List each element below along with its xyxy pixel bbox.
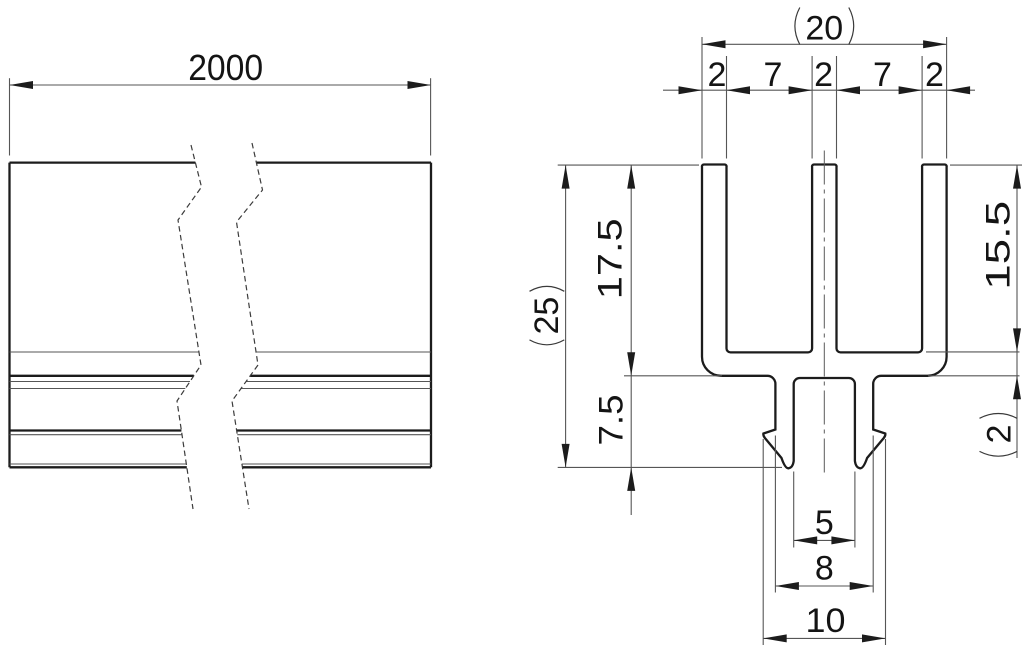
wire horiz y=388.5 left segment	[10, 388, 186, 390]
wire horiz y=381.5 left segment	[10, 381, 191, 383]
dimension (25) left	[528, 165, 782, 467]
svg-text:20: 20	[805, 10, 843, 48]
svg-text:2: 2	[981, 425, 1019, 444]
wire horiz y=381.5 right segment	[246, 381, 431, 383]
wire horiz y=434.7 left segment	[10, 434, 183, 436]
dimension 15.5 right	[926, 165, 1022, 376]
wire horiz y=430.5 left segment	[10, 429, 182, 431]
svg-text:25: 25	[528, 297, 566, 335]
wire horiz y=375.8 right segment	[250, 375, 431, 377]
top extension lines	[702, 37, 947, 159]
svg-text:2: 2	[814, 56, 833, 94]
svg-text:7: 7	[764, 56, 783, 94]
wire horiz y=464.0 left segment	[10, 463, 187, 465]
dimensions 2 7 2 7 2	[663, 56, 975, 94]
svg-text:7: 7	[873, 56, 892, 94]
dimension (2) right	[980, 352, 1022, 458]
dimension 2000	[10, 47, 432, 156]
wire horiz y=352.0 left segment	[10, 351, 199, 353]
dimension 17.5	[592, 165, 722, 376]
dimension 7.5	[593, 376, 636, 515]
wire horiz y=464.0 right segment	[242, 463, 431, 465]
wire horiz y=467.3 left segment	[10, 466, 187, 468]
svg-text:8: 8	[815, 550, 834, 588]
dimension (20)	[702, 8, 947, 49]
svg-text:10: 10	[806, 602, 846, 640]
svg-text:2: 2	[925, 56, 944, 94]
wire horiz y=162.6 right segment	[256, 161, 431, 163]
dimension 8	[775, 436, 873, 593]
wire left edge	[8, 163, 10, 468]
wire horiz y=162.6 left segment	[10, 161, 196, 163]
svg-text:17.5: 17.5	[592, 218, 630, 299]
wire horiz y=430.5 right segment	[237, 429, 431, 431]
wire right edge	[430, 163, 432, 468]
wire horiz y=388.5 right segment	[241, 388, 431, 390]
wire horiz y=467.3 right segment	[242, 466, 431, 468]
wire horiz y=352.0 right segment	[256, 351, 431, 353]
left view: broken side view of 2000mm profile	[10, 143, 432, 509]
dimension 10	[763, 439, 885, 645]
wire horiz y=375.8 left segment	[10, 375, 194, 377]
profile cross-section outline	[702, 164, 947, 468]
svg-text:5: 5	[815, 504, 834, 542]
svg-text:2: 2	[708, 56, 727, 94]
wire horiz y=434.7 right segment	[237, 434, 431, 436]
svg-text:15.5: 15.5	[980, 201, 1018, 290]
centerline of section	[823, 151, 825, 475]
break line right zigzag	[232, 143, 263, 509]
dimension 5	[794, 472, 855, 548]
svg-text:2000: 2000	[188, 47, 263, 88]
svg-text:7.5: 7.5	[593, 395, 631, 446]
break line left zigzag	[177, 145, 202, 509]
